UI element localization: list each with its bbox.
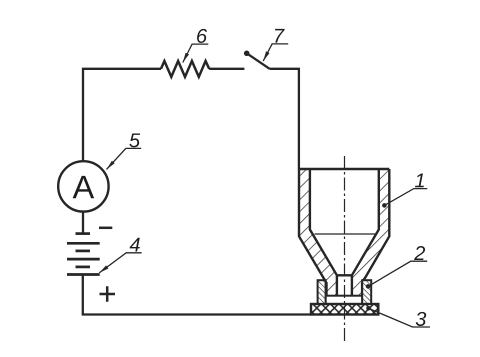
label 6 xyxy=(197,29,207,43)
label 2 xyxy=(414,246,425,260)
ammeter letter A xyxy=(73,176,95,198)
wire: switch to funnel down the right side xyxy=(270,69,299,169)
label 1 xyxy=(415,174,424,188)
battery plus sign xyxy=(100,286,116,302)
liquid level line inside funnel xyxy=(315,233,376,235)
nozzle bushing (item 2): left block xyxy=(318,280,326,304)
nozzle bushing (item 2): bottom band xyxy=(326,296,363,304)
switch S (item 7): open lever arm xyxy=(247,53,270,69)
base plate (item 3): cross-hatched xyxy=(311,304,378,315)
nozzle bushing (item 2): right block xyxy=(362,280,371,304)
funnel (item 1): section hatching of both walls xyxy=(299,169,389,296)
leader with arrow for label 6 (resistor) xyxy=(183,44,209,62)
wire: battery down to bottom rail xyxy=(82,275,84,315)
battery minus sign xyxy=(99,227,112,230)
centerline (dash-dot axis) xyxy=(344,156,346,341)
leader with arrow for label 4 (battery) xyxy=(99,253,141,273)
leader with dot for label 1 (funnel wall) xyxy=(382,203,387,208)
switch S (item 7): pivot dot xyxy=(244,51,250,57)
label 3 xyxy=(416,312,426,326)
label 4 xyxy=(130,238,140,252)
wire: bottom rail to base plate xyxy=(82,313,311,315)
ammeter (item 5): circle body xyxy=(58,161,108,211)
leader with arrow for label 5 (ammeter) xyxy=(107,148,142,169)
leader with dot for label 3 (base plate) xyxy=(366,306,371,311)
label 5 xyxy=(129,133,140,147)
battery GB (item 4): cell plates xyxy=(67,234,100,275)
label 7 xyxy=(275,29,285,43)
leader with dot for label 2 (bushing) xyxy=(366,284,371,289)
leader with arrow for label 7 (switch) xyxy=(263,44,288,61)
wire: left vertical and top horizontal from ammeter up to resistor xyxy=(83,69,161,161)
funnel (item 1): outline xyxy=(299,169,389,296)
resistor R (item 6) zigzag xyxy=(161,61,209,77)
wire: resistor to switch fixed contact xyxy=(209,68,244,70)
wire: ammeter to battery xyxy=(82,212,84,234)
